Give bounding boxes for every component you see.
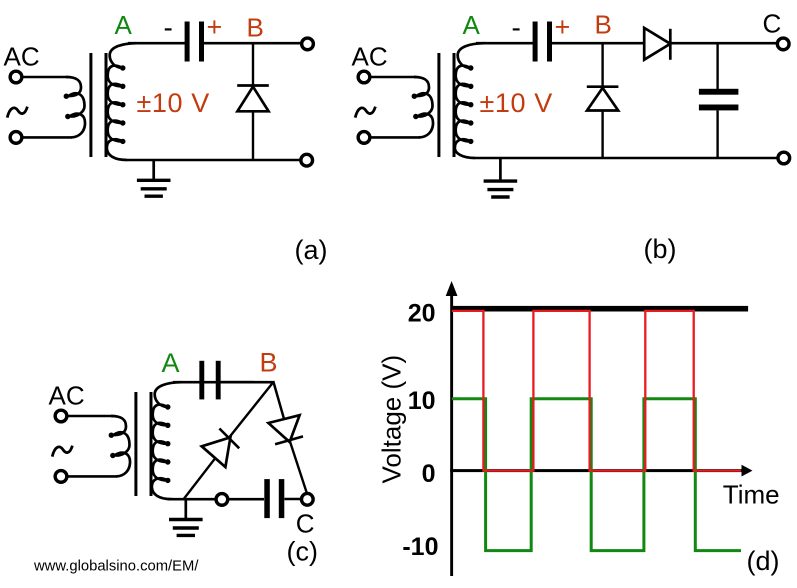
svg-text:+: + (207, 12, 223, 42)
capacitor C2 top plate (b) (699, 89, 739, 95)
secondary coil loop dot 1 (a) (120, 65, 125, 70)
diode D1 cathode bar (b) (587, 85, 619, 88)
svg-text:A: A (463, 10, 481, 40)
secondary coil loop dot 3 (c) (165, 441, 170, 446)
wire diode D1 to node B (c) (230, 382, 274, 437)
secondary coil loop dot 2 (c) (165, 423, 170, 428)
secondary coil loop dot 1 (c) (165, 404, 170, 409)
ground bar 2 (b) (487, 188, 513, 191)
svg-text:0: 0 (422, 460, 436, 488)
svg-text:(d): (d) (747, 546, 780, 576)
bottom rail (a) (127, 159, 302, 162)
svg-text:20: 20 (408, 299, 436, 327)
output terminal C (c) (301, 493, 313, 505)
ground bar 2 (c) (173, 526, 199, 529)
wire capacitor to diode D2 (b) (552, 42, 644, 45)
ground bar 3 (b) (491, 195, 509, 198)
output top terminal (a) (302, 38, 314, 50)
bottom terminal left (c) (216, 494, 228, 506)
svg-text:+: + (555, 12, 571, 42)
svg-text:-10: -10 (402, 533, 438, 561)
secondary coil loop dot 3 (b) (468, 102, 473, 107)
wire node A to capacitor (c) (173, 381, 254, 384)
primary coil loop dot 2 (b) (413, 114, 418, 119)
20 V level thick line (d) (452, 306, 748, 312)
ground bar 1 (b) (484, 179, 518, 182)
wire node to capacitor C2 (b) (716, 43, 718, 89)
AC bottom terminal (b) (358, 132, 370, 144)
capacitor C1 right plate (b) (547, 22, 552, 62)
transformer primary coil (b) (414, 77, 433, 137)
AC bottom terminal (a) (10, 132, 22, 144)
secondary coil loop dot 4 (b) (468, 120, 473, 125)
diode D1 cathode bar (c) (219, 429, 239, 449)
svg-text:B: B (260, 348, 278, 378)
diode D1 triangle (c) (202, 437, 231, 467)
wire AC bottom to primary (a) (21, 136, 73, 139)
wire AC bottom to primary (c) (66, 475, 118, 478)
bottom rail (b) (475, 157, 779, 160)
primary coil loop dot 1 (b) (412, 94, 417, 99)
secondary coil loop dot 4 (c) (165, 459, 170, 464)
wire node A to capacitor (a) (128, 42, 185, 45)
transformer core bar right (c) (150, 392, 153, 496)
secondary coil loop dot 3 (a) (120, 102, 125, 107)
wire node B down-right to diode D2 (c) (273, 381, 284, 419)
primary coil loop dot 2 (c) (110, 453, 115, 458)
red output waveform (d) (452, 311, 741, 471)
AC sine symbol (c) (52, 446, 72, 457)
output bottom terminal (a) (301, 154, 313, 166)
svg-text:(c): (c) (287, 537, 318, 567)
svg-text:AC: AC (352, 42, 388, 72)
wire terminal to capacitor C2 (c) (229, 498, 264, 501)
svg-text:AC: AC (49, 381, 85, 411)
capacitor C2 left plate (c) (264, 479, 270, 518)
wire AC top to primary (c) (66, 415, 114, 418)
svg-text:AC: AC (4, 42, 40, 72)
wire diode D2 to output terminal (b) (670, 42, 778, 45)
ground bar 3 (a) (145, 194, 163, 197)
capacitor C1 left plate (a) (185, 22, 190, 62)
diode D2 cathode bar (b) (669, 29, 672, 60)
wire node A to capacitor (b) (476, 42, 533, 45)
primary coil loop dot 1 (a) (64, 94, 69, 99)
ground stem (b) (499, 158, 502, 181)
transformer core bar left (c) (134, 392, 137, 496)
secondary coil loop dot 2 (a) (120, 84, 125, 89)
svg-text:B: B (247, 12, 264, 42)
svg-text:±10 V: ±10 V (137, 88, 210, 118)
svg-text:±10 V: ±10 V (480, 88, 553, 118)
ground stem (a) (152, 160, 155, 181)
diode D2 triangle (b) (644, 28, 670, 60)
y-axis arrow (d) (446, 281, 458, 296)
transformer primary coil (a) (66, 77, 85, 137)
AC bottom terminal (c) (55, 471, 67, 483)
secondary coil loop dot 5 (a) (120, 139, 125, 144)
wire diode to bottom rail (a) (252, 111, 254, 160)
primary coil loop dot 2 (a) (65, 114, 70, 119)
wire diode D1 to bottom rail (b) (601, 111, 603, 159)
wire capacitor C2 to bottom rail (b) (716, 110, 718, 158)
y-axis (d) (450, 288, 453, 576)
transformer secondary coil (a) (107, 43, 137, 160)
svg-text:-: - (164, 12, 173, 43)
ground bar 2 (a) (141, 187, 167, 190)
svg-text:A: A (162, 348, 180, 378)
wire capacitor to output terminal (a) (204, 42, 303, 45)
AC top terminal (c) (55, 410, 67, 422)
capacitor C2 right plate (c) (279, 479, 285, 518)
secondary coil loop dot 5 (c) (165, 478, 170, 483)
capacitor C1 left plate (b) (533, 22, 538, 62)
transformer primary coil (c) (111, 416, 130, 476)
transformer core bar left (b) (437, 53, 440, 157)
wire capacitor C2 to terminal C (c) (285, 498, 303, 501)
wire AC top to primary (b) (369, 76, 417, 79)
svg-text:(a): (a) (295, 235, 328, 265)
transformer secondary coil (b) (455, 43, 485, 158)
transformer core bar left (a) (89, 53, 92, 157)
output bottom terminal (b) (778, 152, 790, 164)
diode D1 triangle (b) (587, 88, 618, 111)
primary coil loop dot 1 (c) (109, 433, 114, 438)
capacitor C1 right plate (a) (199, 22, 204, 62)
capacitor C2 bottom plate (b) (699, 105, 739, 111)
AC top terminal (a) (10, 71, 22, 83)
svg-text:A: A (115, 10, 133, 40)
bottom rail left (c) (168, 498, 217, 501)
transformer secondary coil (c) (152, 382, 182, 499)
wire ground node to diode D1 (c) (184, 457, 216, 498)
ground bar 1 (c) (169, 518, 203, 521)
svg-text:B: B (595, 10, 612, 40)
output top terminal (b) (777, 38, 789, 50)
wire AC bottom to primary (b) (369, 136, 421, 139)
svg-text:C: C (763, 9, 782, 39)
capacitor C1 right plate (c) (216, 361, 221, 400)
svg-text:-: - (512, 12, 521, 43)
diode D2 triangle (c) (268, 415, 299, 442)
svg-text:10: 10 (408, 387, 436, 415)
x-axis (d) (450, 469, 744, 472)
wire diode D2 to output terminal (c) (290, 441, 308, 495)
secondary coil loop dot 2 (b) (468, 84, 473, 89)
x-axis arrow (d) (742, 465, 753, 477)
transformer core bar right (b) (453, 53, 456, 157)
svg-text:Time: Time (723, 480, 780, 510)
wire node B down to diode (a) (252, 43, 254, 85)
wire capacitor to node B (c) (221, 381, 273, 384)
secondary coil loop dot 1 (b) (468, 65, 473, 70)
diode D1 triangle (a) (237, 87, 268, 112)
transformer core bar right (a) (105, 53, 108, 157)
AC sine symbol (b) (355, 107, 375, 118)
svg-text:C: C (296, 508, 315, 538)
svg-text:www.globalsino.com/EM/: www.globalsino.com/EM/ (33, 559, 199, 575)
secondary coil loop dot 4 (a) (120, 120, 125, 125)
wire AC top to primary (a) (21, 76, 69, 79)
wire node B down to diode D1 (b) (601, 43, 603, 86)
svg-text:Voltage (V): Voltage (V) (377, 355, 407, 484)
secondary coil loop dot 5 (b) (468, 139, 473, 144)
AC sine symbol (a) (7, 107, 27, 118)
green output waveform (d) (452, 399, 741, 551)
diode D1 cathode bar (a) (237, 84, 269, 87)
svg-text:(b): (b) (644, 234, 677, 264)
diode D2 cathode bar (c) (275, 436, 303, 444)
ground bar 3 (c) (177, 534, 195, 537)
capacitor C1 left plate (c) (199, 361, 204, 400)
ground bar 1 (a) (137, 179, 171, 182)
AC top terminal (b) (358, 71, 370, 83)
ground stem (c) (184, 499, 187, 520)
